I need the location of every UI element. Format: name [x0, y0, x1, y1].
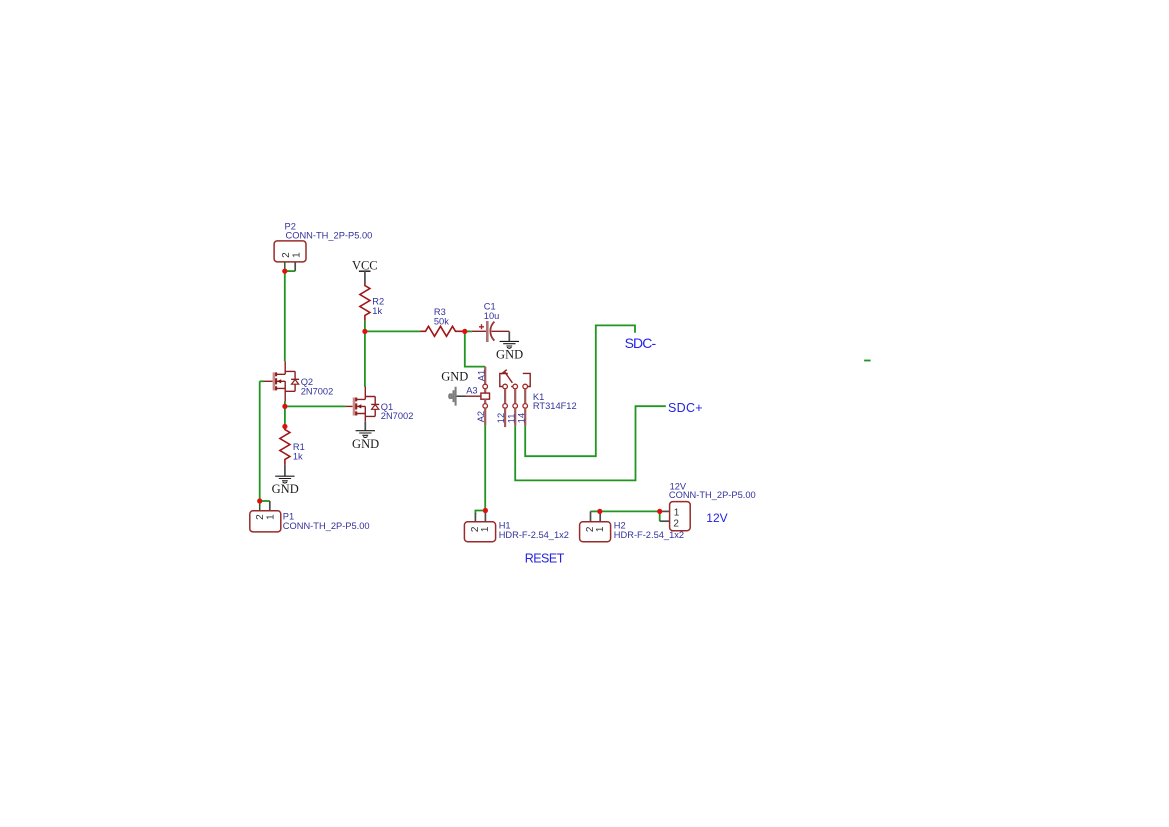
- junction at P1: [257, 498, 262, 503]
- relay K1 coil pin A2: [476, 399, 488, 425]
- wire node to Q1 drain: [364, 331, 366, 386]
- wire Q2 source to node: [284, 401, 286, 406]
- svg-text:2N7002: 2N7002: [301, 387, 334, 397]
- connector P1 pin 1: [269, 501, 271, 511]
- svg-text:1k: 1k: [293, 451, 303, 461]
- svg-text:50k: 50k: [434, 316, 449, 326]
- wire node to Q1 gate: [285, 405, 346, 407]
- transistor Q1 2N7002: [345, 387, 413, 422]
- relay K1 labels: [533, 392, 577, 411]
- wire node to R3: [365, 330, 420, 332]
- transistor Q2 2N7002: [264, 361, 334, 401]
- connector P2 pin 1: [294, 262, 296, 271]
- svg-text:R2: R2: [372, 297, 384, 307]
- ground at R1: [272, 465, 299, 496]
- ground at Q1: [352, 421, 379, 451]
- junction R2/R3: [362, 329, 367, 334]
- svg-text:GND: GND: [496, 347, 523, 361]
- svg-text:HDR-F-2.54_1x2: HDR-F-2.54_1x2: [499, 530, 569, 540]
- connector P2 pin 2: [284, 262, 286, 271]
- svg-text:SDC+: SDC+: [668, 401, 703, 415]
- svg-text:2: 2: [673, 518, 679, 529]
- connector H2 pin 1: [599, 511, 601, 521]
- connector P1 body: [250, 511, 281, 532]
- svg-text:C1: C1: [484, 301, 496, 311]
- svg-text:CONN-TH_2P-P5.00: CONN-TH_2P-P5.00: [286, 231, 373, 241]
- relay K1 contact pin 11: [506, 384, 517, 426]
- svg-text:10u: 10u: [484, 311, 500, 321]
- connector H1 body: [464, 522, 495, 542]
- connector 12V pin 1: [660, 510, 670, 512]
- svg-text:SDC-: SDC-: [625, 335, 657, 351]
- relay K1 contact pin 14: [516, 373, 530, 425]
- connector 12V pin 2: [660, 520, 670, 522]
- svg-text:1k: 1k: [372, 306, 382, 316]
- power flag VCC: [352, 259, 378, 284]
- relay K1 coil box: [481, 393, 490, 399]
- connector P1 pin 2: [259, 501, 261, 511]
- wire 12V pin2 link: [659, 511, 661, 521]
- connector 12V body: [670, 502, 691, 531]
- connector H2 pin 2: [590, 511, 592, 521]
- relay K1 pin A3: [466, 385, 481, 396]
- svg-text:1: 1: [480, 526, 491, 532]
- wire relay pin14 to SDC-: [525, 325, 635, 456]
- svg-text:RESET: RESET: [525, 552, 565, 566]
- wire stub at right: [864, 360, 871, 362]
- resistor R3: [420, 307, 465, 336]
- relay K1 contact pin 12: [496, 370, 512, 427]
- junction at H1: [483, 508, 488, 513]
- resistor R2: [360, 283, 384, 321]
- relay K1 coil pin A1: [476, 367, 487, 394]
- svg-text:1: 1: [595, 526, 606, 532]
- junction at H2: [597, 509, 602, 514]
- capacitor C1: [472, 301, 509, 342]
- svg-text:A1: A1: [476, 370, 486, 381]
- svg-text:A3: A3: [466, 385, 477, 395]
- svg-text:GND: GND: [272, 482, 299, 496]
- junction Q2 source node: [282, 404, 287, 409]
- svg-text:CONN-TH_2P-P5.00: CONN-TH_2P-P5.00: [283, 521, 370, 531]
- wire node to R1: [284, 406, 286, 426]
- svg-text:RT314F12: RT314F12: [533, 401, 577, 411]
- resistor R1: [280, 427, 305, 465]
- svg-text:12V: 12V: [706, 511, 727, 525]
- ground at C1: [496, 332, 523, 362]
- svg-text:12: 12: [496, 413, 506, 423]
- svg-text:1: 1: [265, 514, 276, 520]
- connector H2 labels: [614, 520, 684, 539]
- wire Q2 gate: [260, 380, 264, 382]
- connector H1 pin 1: [484, 511, 486, 522]
- svg-text:1: 1: [291, 252, 302, 258]
- connector P2 labels: [285, 221, 373, 240]
- connector H1 pin 2: [474, 513, 476, 522]
- ground at A3 (left pointing): [441, 370, 468, 406]
- junction R3/C1: [462, 329, 467, 334]
- junction at P2: [282, 269, 287, 274]
- connector H1 labels: [499, 520, 569, 539]
- wire junction down to relay A1: [465, 331, 485, 366]
- wire P2 pin1 to junction: [285, 270, 295, 272]
- wire long vertical to P1: [259, 381, 261, 501]
- wire relay A2 to H1: [484, 425, 486, 510]
- wire junction to C1: [465, 330, 472, 332]
- wire P2 to Q2 drain: [284, 271, 286, 361]
- svg-text:1: 1: [674, 508, 680, 519]
- connector 12V labels: [669, 481, 756, 500]
- svg-text:A2: A2: [476, 411, 486, 422]
- connector H2 body: [580, 522, 611, 542]
- wire H2 pin2 link: [591, 510, 600, 512]
- svg-text:GND: GND: [352, 437, 379, 451]
- junction at 12V connector: [657, 509, 662, 514]
- wire H1 pin2 link: [475, 511, 485, 515]
- wire H2 to 12V connector: [600, 510, 660, 512]
- wire R2 to main node: [364, 321, 366, 332]
- wire P1 pin1 link: [260, 500, 270, 502]
- svg-text:CONN-TH_2P-P5.00: CONN-TH_2P-P5.00: [669, 490, 756, 500]
- connector P2 body: [274, 241, 306, 262]
- junction at R1 top: [282, 424, 287, 429]
- svg-text:11: 11: [506, 414, 516, 424]
- wire relay pin11 to SDC+: [515, 406, 666, 480]
- svg-text:14: 14: [516, 413, 526, 423]
- connector P1 labels: [283, 512, 370, 531]
- svg-text:2N7002: 2N7002: [381, 411, 414, 421]
- svg-text:GND: GND: [441, 370, 468, 384]
